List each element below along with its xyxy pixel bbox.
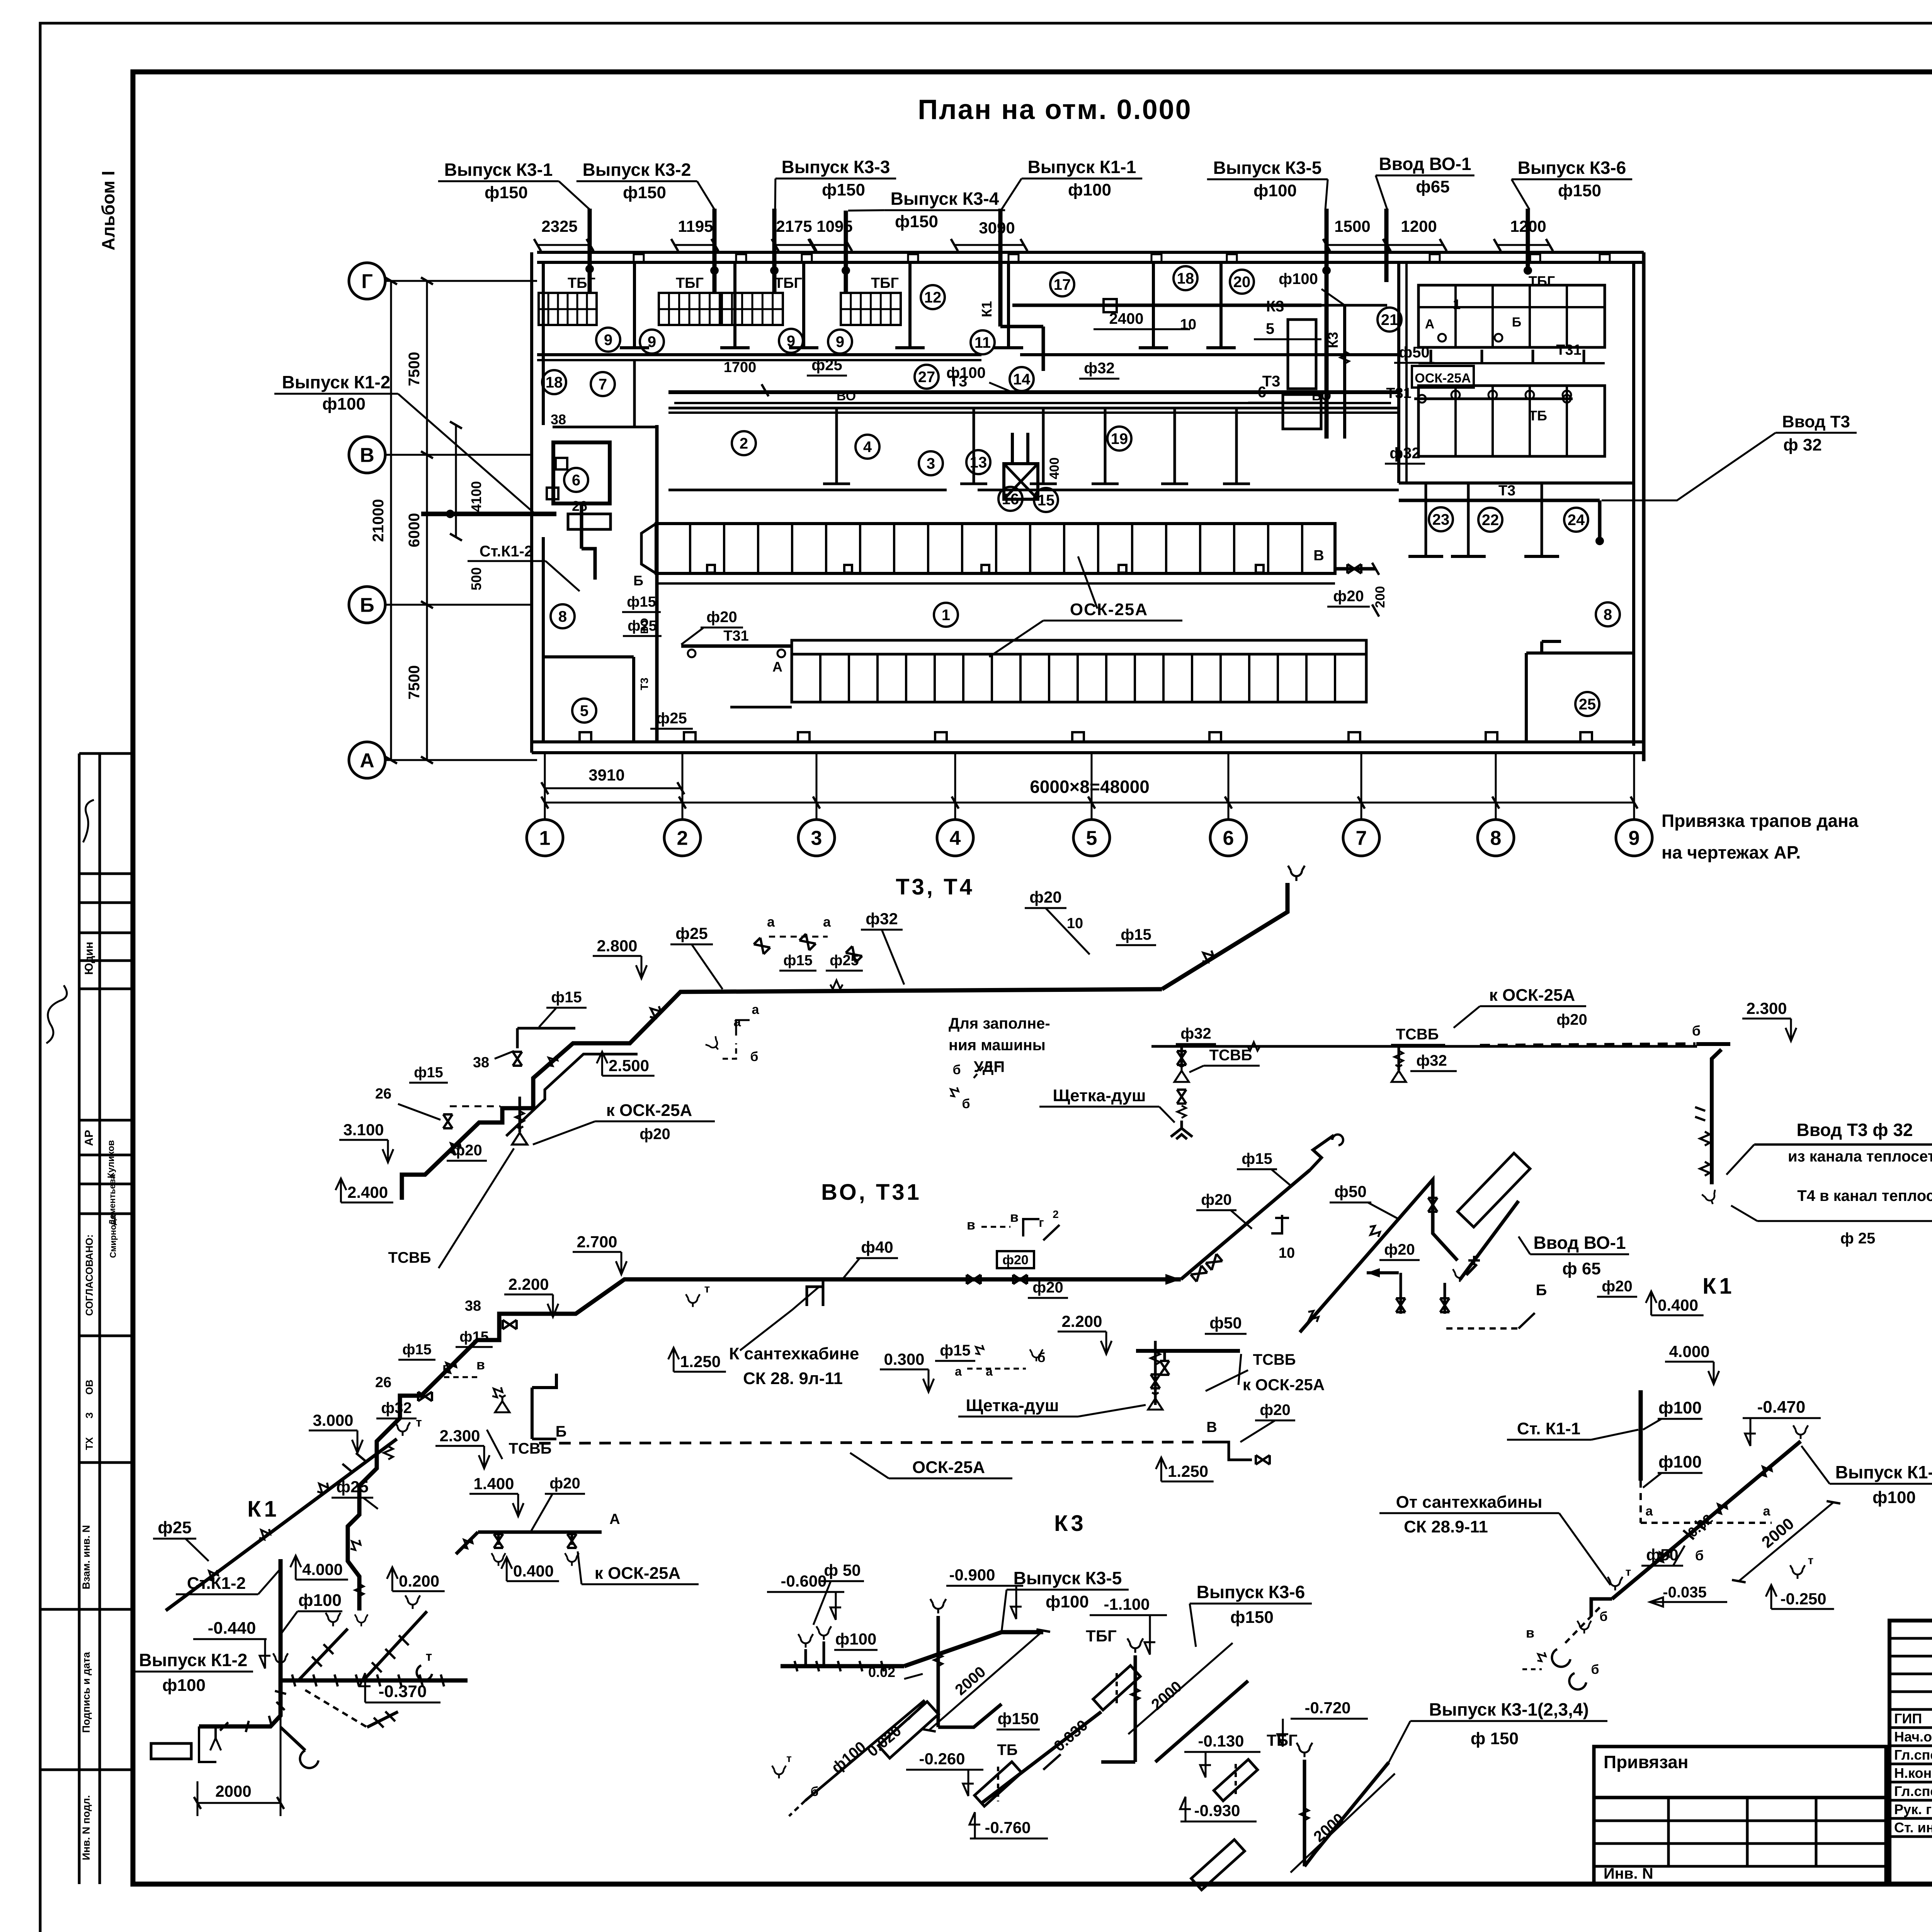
svg-text:ф25: ф25 (811, 357, 842, 374)
svg-text:а: а (986, 1364, 993, 1378)
svg-text:ф20: ф20 (1002, 1253, 1029, 1267)
svg-text:ф150: ф150 (895, 212, 938, 231)
svg-text:8: 8 (1490, 827, 1502, 850)
svg-text:-0.760: -0.760 (985, 1818, 1031, 1837)
svg-text:21: 21 (1381, 311, 1398, 328)
svg-text:а: а (734, 1015, 742, 1029)
room 18-7 partition (633, 360, 636, 427)
svg-text:ф100: ф100 (322, 395, 366, 413)
svg-text:К1: К1 (979, 301, 995, 317)
building outer walls (537, 251, 1644, 254)
K1-2 vertical to outlet (199, 1680, 281, 1726)
svg-text:ф100: ф100 (1068, 180, 1111, 199)
svg-text:-0.900: -0.900 (949, 1566, 995, 1584)
svg-text:К сантехкабине: К сантехкабине (729, 1344, 859, 1363)
svg-text:Т3: Т3 (638, 678, 650, 690)
svg-text:Выпуск К3-4: Выпуск К3-4 (891, 189, 999, 209)
TBG hatch grid 2 (659, 293, 720, 325)
svg-text:ф20: ф20 (639, 1126, 670, 1143)
top wall window marks (634, 254, 644, 262)
svg-text:2: 2 (677, 827, 688, 850)
svg-text:Смирнова: Смирнова (108, 1215, 118, 1258)
K1-2 main pipe (281, 1679, 468, 1683)
pipe K1-2 horizontal (421, 512, 556, 516)
svg-text:ф20: ф20 (1029, 888, 1061, 906)
svg-text:26: 26 (375, 1086, 391, 1102)
pipe T3 right tail (1162, 883, 1287, 989)
svg-text:0.400: 0.400 (1658, 1296, 1698, 1314)
K1 diagonal (166, 1439, 397, 1611)
stall row2 base ticks (730, 706, 792, 709)
pipe T3 main run (402, 989, 1162, 1200)
K3 collector run (781, 1664, 904, 1668)
vet stall grid upper (1418, 285, 1605, 347)
plan room circles top (596, 328, 620, 352)
svg-text:Выпуск К3-5: Выпуск К3-5 (1213, 158, 1322, 178)
svg-text:ф100: ф100 (1872, 1488, 1916, 1507)
svg-text:Т31: Т31 (723, 628, 748, 644)
svg-text:а: а (955, 1364, 962, 1378)
vet stall grid lower (1418, 386, 1605, 456)
svg-text:Инв. N: Инв. N (1604, 1865, 1653, 1882)
svg-text:Выпуск К3-2: Выпуск К3-2 (583, 160, 691, 180)
svg-text:на чертежах АР.: на чертежах АР. (1662, 842, 1801, 862)
svg-text:Выпуск К3-6: Выпуск К3-6 (1197, 1582, 1305, 1602)
svg-text:-0.260: -0.260 (919, 1750, 965, 1768)
svg-text:7: 7 (1356, 827, 1367, 850)
phi20 diag up (1181, 1170, 1310, 1279)
TBG hatch grid 1 (539, 293, 597, 325)
svg-text:5: 5 (580, 702, 588, 719)
svg-text:-0.440: -0.440 (208, 1619, 256, 1638)
svg-text:ВО: ВО (638, 618, 650, 634)
svg-text:ф150: ф150 (1230, 1608, 1274, 1627)
svg-text:0.02: 0.02 (868, 1664, 895, 1680)
svg-text:2: 2 (740, 435, 748, 452)
svg-text:ф32: ф32 (866, 910, 898, 928)
svg-text:ф20: ф20 (1384, 1241, 1415, 1258)
svg-text:ф15: ф15 (627, 594, 656, 610)
svg-text:ф100: ф100 (946, 364, 986, 381)
svg-text:23: 23 (1432, 511, 1450, 528)
svg-text:К3: К3 (1054, 1511, 1087, 1536)
svg-text:Юдин: Юдин (83, 942, 95, 975)
svg-text:1: 1 (942, 607, 950, 624)
svg-text:СОГЛАСОВАНО:: СОГЛАСОВАНО: (83, 1234, 95, 1316)
svg-text:б: б (750, 1049, 758, 1064)
dashed b tail (789, 1801, 805, 1816)
K1-1 dashed tail (1564, 1607, 1600, 1644)
svg-text:в: в (967, 1217, 975, 1233)
svg-text:ГИП: ГИП (1894, 1711, 1922, 1726)
svg-text:а: а (1763, 1504, 1771, 1519)
svg-text:в: в (442, 1360, 451, 1376)
svg-text:Т3, Т4: Т3, Т4 (896, 874, 975, 900)
room row partitions (835, 408, 838, 484)
svg-text:4: 4 (863, 439, 872, 456)
svg-text:Выпуск К1-2: Выпуск К1-2 (282, 372, 391, 392)
svg-text:ф25: ф25 (675, 924, 707, 942)
svg-text:9: 9 (1629, 827, 1640, 850)
svg-text:б: б (962, 1097, 970, 1111)
svg-text:ОСК-25А: ОСК-25А (912, 1458, 985, 1477)
phi32 run right (1151, 1045, 1697, 1048)
svg-text:2325: 2325 (541, 217, 577, 235)
svg-text:26: 26 (375, 1374, 391, 1391)
svg-text:2.800: 2.800 (597, 937, 637, 955)
svg-text:в: в (476, 1357, 485, 1372)
phi50 diag (1300, 1180, 1458, 1332)
K1 pipe drop room11 (1000, 325, 1043, 328)
left strip horizontal dividers (79, 752, 133, 755)
svg-text:Ст.К1-2: Ст.К1-2 (480, 543, 533, 560)
2000 dim K3-6 (1128, 1643, 1233, 1734)
svg-text:ОСК-25А: ОСК-25А (1070, 600, 1148, 619)
svg-text:10: 10 (1067, 915, 1083, 932)
svg-text:ф32: ф32 (1416, 1052, 1447, 1069)
svg-text:Выпуск К1-2: Выпуск К1-2 (139, 1650, 248, 1670)
svg-text:ТБГ: ТБГ (1086, 1627, 1117, 1645)
K3-5 riser (930, 1599, 946, 1613)
svg-text:7: 7 (599, 376, 607, 393)
svg-text:ТСВБ: ТСВБ (1253, 1351, 1296, 1368)
svg-text:ф100: ф100 (1658, 1398, 1702, 1417)
svg-text:38: 38 (551, 412, 566, 427)
svg-text:1.250: 1.250 (680, 1352, 721, 1371)
K3-6 incline (1155, 1681, 1248, 1762)
svg-text:Привязан: Привязан (1604, 1752, 1689, 1772)
svg-text:Инв. N подл.: Инв. N подл. (80, 1795, 92, 1861)
svg-text:-0.930: -0.930 (1194, 1801, 1240, 1820)
svg-text:-1.100: -1.100 (1104, 1595, 1150, 1613)
svg-text:3910: 3910 (588, 766, 624, 784)
svg-text:ф20: ф20 (1201, 1191, 1232, 1208)
svg-text:ф100: ф100 (835, 1630, 877, 1648)
svg-text:ТСВБ: ТСВБ (1396, 1026, 1439, 1043)
room row bottom wall (668, 489, 947, 492)
svg-text:1700: 1700 (724, 359, 757, 376)
svg-text:Гл.спец.: Гл.спец. (1894, 1747, 1932, 1763)
st K1-2 stack (279, 1559, 283, 1680)
svg-text:ф15: ф15 (414, 1065, 443, 1081)
K1-1 main diagonal (1612, 1441, 1801, 1599)
svg-text:13: 13 (970, 454, 987, 471)
svg-text:10: 10 (1279, 1245, 1295, 1261)
svg-text:Г: Г (361, 270, 372, 293)
TBG hatch grid 4 (841, 293, 901, 325)
svg-text:ТБГ: ТБГ (774, 275, 802, 291)
bottom grid circles (527, 820, 563, 856)
plan room circles left/right (564, 468, 588, 492)
svg-text:500: 500 (468, 567, 484, 590)
svg-text:б: б (1599, 1609, 1607, 1624)
svg-text:10: 10 (1180, 316, 1196, 333)
plan room circles middle (542, 370, 566, 394)
svg-text:в: в (1526, 1625, 1534, 1641)
svg-text:19: 19 (1111, 430, 1128, 447)
svg-text:ф100: ф100 (1046, 1592, 1089, 1611)
svg-text:ТБГ: ТБГ (871, 275, 899, 291)
I-beam pillars rooms 23 22 (1425, 483, 1427, 556)
svg-text:Подпись и дата: Подпись и дата (80, 1651, 92, 1733)
svg-text:Гл.спец.: Гл.спец. (1894, 1783, 1932, 1799)
svg-text:ф 50: ф 50 (824, 1561, 861, 1579)
svg-text:-0.720: -0.720 (1304, 1699, 1350, 1717)
K3-1 incline (1304, 1762, 1389, 1866)
dashed diag K1-2 (305, 1690, 367, 1727)
svg-text:1200: 1200 (1401, 217, 1437, 235)
svg-text:Ввод Т3 ф 32: Ввод Т3 ф 32 (1796, 1120, 1913, 1140)
svg-text:г: г (1039, 1216, 1044, 1230)
phi15 branch 38 (516, 1028, 519, 1048)
vet mid columns (1430, 350, 1432, 363)
svg-text:ф 25: ф 25 (1840, 1230, 1876, 1247)
svg-text:ния машины: ния машины (949, 1037, 1046, 1054)
svg-text:а: а (752, 1002, 760, 1017)
svg-text:2.500: 2.500 (609, 1056, 649, 1075)
svg-text:6: 6 (1223, 827, 1234, 850)
svg-text:27: 27 (918, 369, 935, 386)
phi32 run dashed tail (1480, 1044, 1696, 1045)
svg-text:ф32: ф32 (1389, 445, 1420, 462)
K3-6 riser (1128, 1638, 1143, 1653)
svg-text:Рук. гр.: Рук. гр. (1894, 1801, 1932, 1817)
svg-text:-0.035: -0.035 (1663, 1584, 1706, 1601)
svg-text:СК 28. 9л-11: СК 28. 9л-11 (743, 1369, 843, 1388)
svg-text:ф15: ф15 (1242, 1150, 1272, 1167)
svg-text:ф20: ф20 (1333, 588, 1364, 605)
svg-text:3090: 3090 (979, 219, 1015, 237)
svg-text:б: б (952, 1063, 961, 1077)
svg-text:ф 32: ф 32 (1783, 435, 1822, 454)
svg-text:к ОСК-25А: к ОСК-25А (606, 1101, 692, 1120)
svg-text:400: 400 (1047, 457, 1062, 480)
svg-text:Ст. инж.: Ст. инж. (1894, 1820, 1932, 1835)
K1-1 left end (1591, 1599, 1612, 1616)
svg-text:б: б (1591, 1662, 1599, 1677)
svg-text:0.200: 0.200 (399, 1572, 439, 1590)
svg-text:6: 6 (572, 472, 580, 489)
svg-text:Б: Б (556, 1423, 567, 1440)
svg-text:2000: 2000 (215, 1782, 251, 1800)
svg-text:т: т (416, 1415, 422, 1429)
svg-text:Т31: Т31 (1386, 385, 1411, 401)
svg-text:200: 200 (1373, 586, 1388, 608)
svg-text:ВО: ВО (837, 389, 856, 403)
svg-text:к ОСК-25А: к ОСК-25А (1489, 986, 1575, 1005)
svg-text:25: 25 (1579, 696, 1596, 713)
svg-text:ф15: ф15 (783, 952, 813, 969)
svg-text:9: 9 (604, 332, 612, 349)
svg-text:Куликов: Куликов (106, 1140, 116, 1179)
svg-text:9: 9 (836, 333, 844, 350)
svg-text:3: 3 (811, 827, 822, 850)
svg-text:ф32: ф32 (1180, 1025, 1211, 1042)
svg-text:А: А (1425, 317, 1435, 332)
room 6 pipe cluster (553, 442, 610, 503)
svg-text:б: б (1695, 1548, 1704, 1563)
svg-text:ф20: ф20 (1556, 1011, 1587, 1028)
svg-text:5: 5 (1266, 320, 1274, 337)
collector hooks (804, 1649, 807, 1666)
a-a dashed K1-1 (1641, 1522, 1772, 1524)
inner corridor wall line (668, 412, 1399, 414)
svg-text:7500: 7500 (406, 665, 423, 700)
lower hook K1-2 (281, 1727, 305, 1750)
svg-text:ф50: ф50 (1334, 1182, 1366, 1201)
svg-text:-0.250: -0.250 (1781, 1590, 1827, 1608)
B node branch (531, 1388, 534, 1439)
svg-text:ТБГ: ТБГ (676, 275, 704, 291)
svg-text:АР: АР (83, 1130, 95, 1146)
svg-text:Н.контр.: Н.контр. (1894, 1765, 1932, 1781)
vvod VO-1 diag (1460, 1201, 1519, 1280)
corridor walls (668, 407, 1399, 410)
svg-text:Выпуск К3-1: Выпуск К3-1 (444, 160, 553, 180)
svg-text:2.400: 2.400 (347, 1183, 388, 1201)
room circle 1 (934, 603, 958, 627)
shower cross box (1004, 464, 1038, 499)
signature scribble (83, 800, 94, 842)
svg-text:2.300: 2.300 (439, 1427, 480, 1445)
pipe VO main run (348, 1279, 1181, 1611)
phi50 drop (1343, 305, 1346, 439)
svg-text:ф32: ф32 (1084, 360, 1115, 377)
svg-text:18: 18 (1177, 270, 1194, 287)
svg-text:Для заполне-: Для заполне- (949, 1015, 1050, 1032)
svg-text:-0.130: -0.130 (1198, 1732, 1244, 1750)
svg-text:ф15: ф15 (940, 1342, 971, 1359)
TBG hatch grid 3 (722, 293, 783, 325)
pipe T31 row2 (681, 645, 792, 648)
2000 dim K3-5 (929, 1631, 1043, 1730)
svg-text:26: 26 (572, 498, 587, 514)
stall row 2 (792, 640, 1366, 654)
TSVB T3 mid column (1180, 1045, 1183, 1066)
svg-text:В: В (1313, 548, 1324, 564)
room 25 walls (1525, 653, 1528, 742)
phi150 incline mid (982, 1712, 1101, 1803)
svg-text:2175: 2175 (776, 217, 812, 235)
vet T31 line (1414, 398, 1573, 400)
svg-text:6000×8=48000: 6000×8=48000 (1030, 777, 1150, 797)
svg-text:ф100: ф100 (1279, 270, 1318, 287)
svg-text:9: 9 (787, 333, 795, 350)
svg-text:т: т (1626, 1566, 1631, 1578)
svg-text:15: 15 (1037, 492, 1055, 509)
svg-text:20: 20 (1233, 274, 1251, 291)
svg-text:План на отм. 0.000: План на отм. 0.000 (918, 94, 1192, 125)
svg-text:ТБ: ТБ (1529, 408, 1547, 423)
vertical pipe VO T3 left (655, 425, 659, 742)
26 branch dashed (450, 1105, 500, 1107)
svg-text:Альбом I: Альбом I (98, 171, 118, 250)
phi50 horizontal (1136, 1349, 1240, 1353)
svg-text:1.400: 1.400 (473, 1475, 514, 1493)
svg-text:Ввод Т3: Ввод Т3 (1782, 412, 1850, 431)
svg-text:2.700: 2.700 (577, 1233, 617, 1251)
svg-text:ТБ: ТБ (997, 1742, 1017, 1759)
svg-text:ф25: ф25 (830, 952, 859, 969)
svg-text:8: 8 (558, 608, 567, 625)
svg-text:ф50: ф50 (1209, 1314, 1242, 1332)
svg-text:ОСК-25А: ОСК-25А (1415, 371, 1471, 386)
svg-text:ТСВБ: ТСВБ (1209, 1047, 1252, 1064)
svg-text:К3: К3 (1325, 332, 1341, 348)
svg-text:5: 5 (1086, 827, 1097, 850)
grid letter circles (349, 263, 385, 299)
svg-text:-0.470: -0.470 (1757, 1398, 1806, 1417)
svg-text:А: А (609, 1511, 620, 1527)
svg-text:ф15: ф15 (1121, 926, 1151, 943)
svg-text:а: а (1646, 1504, 1653, 1519)
K3-1 riser (1297, 1743, 1313, 1757)
svg-text:Т3: Т3 (1498, 483, 1515, 499)
svg-text:т: т (1808, 1554, 1814, 1567)
svg-text:ф150: ф150 (998, 1709, 1039, 1728)
section front line (537, 353, 981, 356)
svg-text:ф100: ф100 (1658, 1452, 1702, 1471)
svg-text:6: 6 (1258, 384, 1266, 401)
svg-text:Выпуск К3-5: Выпуск К3-5 (1014, 1568, 1122, 1588)
svg-text:ф15: ф15 (551, 989, 582, 1006)
svg-text:Щетка-душ: Щетка-душ (966, 1396, 1059, 1415)
titleblock small grid left (1594, 1798, 1886, 1884)
svg-text:11: 11 (975, 334, 991, 351)
svg-text:4: 4 (950, 827, 961, 850)
valve column from VO (1154, 1341, 1157, 1405)
svg-text:к ОСК-25А: к ОСК-25А (595, 1564, 680, 1583)
svg-text:8: 8 (1604, 606, 1612, 623)
svg-text:От сантехкабины: От сантехкабины (1396, 1493, 1543, 1512)
svg-text:ф15: ф15 (402, 1342, 432, 1358)
svg-text:ф40: ф40 (861, 1238, 893, 1256)
svg-text:ф150: ф150 (822, 180, 865, 199)
svg-text:А: А (360, 750, 374, 772)
svg-text:из канала теплосети: из канала теплосети (1788, 1148, 1932, 1165)
svg-text:Ввод ВО-1: Ввод ВО-1 (1379, 154, 1471, 174)
svg-text:24: 24 (1568, 512, 1585, 529)
svg-text:т: т (426, 1649, 432, 1664)
svg-text:ф150: ф150 (623, 183, 666, 202)
svg-text:Выпуск К3-1(2,3,4): Выпуск К3-1(2,3,4) (1429, 1699, 1589, 1719)
filling station cluster (769, 936, 828, 938)
titleblock staff grid (1889, 1621, 1932, 1884)
svg-text:22: 22 (1482, 512, 1499, 529)
svg-text:ф25: ф25 (158, 1518, 191, 1537)
corridor pipes T3 VO (668, 390, 1399, 394)
svg-text:21000: 21000 (370, 499, 387, 542)
bottom wall window marks (580, 732, 591, 742)
svg-text:-0.370: -0.370 (379, 1682, 427, 1701)
svg-text:3.000: 3.000 (313, 1411, 353, 1429)
svg-text:Привязка трапов дана: Привязка трапов дана (1662, 811, 1859, 831)
svg-text:ТХ: ТХ (83, 1437, 95, 1450)
svg-text:СК 28.9-11: СК 28.9-11 (1404, 1517, 1488, 1536)
svg-text:Выпуск К3-3: Выпуск К3-3 (782, 157, 890, 177)
svg-text:Взам. инв. N: Взам. инв. N (80, 1525, 92, 1590)
svg-text:Т31: Т31 (1556, 342, 1581, 358)
svg-text:ф32: ф32 (381, 1400, 412, 1417)
vet block partitions (1397, 262, 1400, 483)
svg-text:1095: 1095 (816, 217, 852, 235)
svg-text:2.300: 2.300 (1746, 999, 1787, 1017)
svg-text:1.250: 1.250 (1168, 1462, 1208, 1480)
svg-text:ф20: ф20 (706, 609, 737, 626)
svg-text:ф150: ф150 (485, 183, 528, 202)
svg-text:Нач.отд.: Нач.отд. (1894, 1729, 1932, 1745)
svg-text:Выпуск К1-1: Выпуск К1-1 (1028, 157, 1136, 177)
